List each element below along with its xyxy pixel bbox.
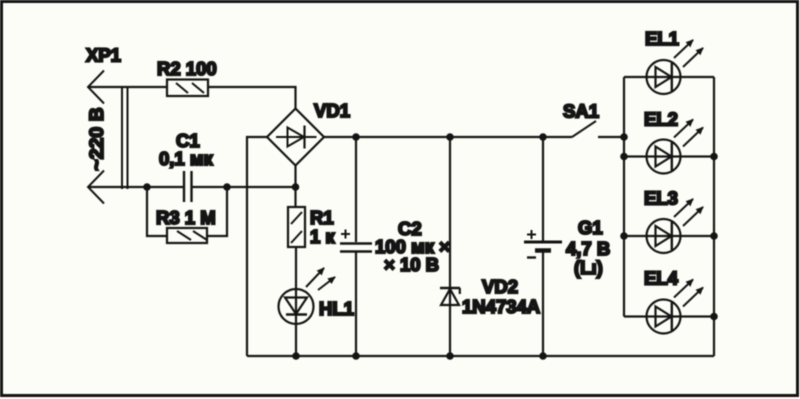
- svg-text:R1: R1: [310, 207, 334, 228]
- resistor R1: [288, 207, 305, 247]
- battery G1: [524, 230, 562, 258]
- wire bottom AC from XP1 to VD1 bottom node: [88, 186, 296, 188]
- junction node at C1 right: [223, 183, 231, 191]
- LED EL1: [624, 40, 714, 94]
- svg-text:0,1 мк: 0,1 мк: [159, 148, 214, 169]
- svg-text:EL3: EL3: [644, 188, 678, 209]
- switch SA1: [572, 121, 624, 137]
- wire LED right bus: [713, 77, 715, 356]
- connector XP1 double lines: [122, 86, 128, 189]
- junction node at C1 left: [143, 183, 151, 191]
- wire R1 to HL1 to bottom rail: [295, 247, 297, 356]
- svg-text:1 к: 1 к: [310, 226, 335, 247]
- junction node C2 top: [352, 133, 360, 141]
- svg-text:~220 В: ~220 В: [86, 107, 108, 170]
- connector XP1 pin arrows: [88, 71, 104, 204]
- svg-text:VD2: VD2: [482, 276, 518, 297]
- junction node switch to bus: [620, 133, 628, 141]
- junction node VD2 top: [446, 133, 454, 141]
- junction node G1 bottom: [539, 352, 547, 360]
- capacitor C2: [340, 230, 372, 252]
- LED EL2: [620, 120, 718, 174]
- resistor R3: [167, 228, 207, 243]
- capacitor C1: [184, 171, 192, 202]
- svg-text:VD1: VD1: [314, 100, 350, 121]
- wire VD1 left vertex to bottom rail: [247, 137, 267, 356]
- svg-text:4,7 В: 4,7 В: [566, 238, 610, 259]
- wire VD1 bottom vertex down to R1: [294, 166, 296, 208]
- svg-text:EL2: EL2: [644, 109, 678, 130]
- svg-text:SA1: SA1: [563, 101, 599, 122]
- bridge rectifier VD1: [267, 109, 324, 166]
- junction node VD1 bottom / AC line: [292, 183, 300, 191]
- junction node VD2 bottom: [446, 352, 454, 360]
- wire G1 branch: [542, 137, 544, 356]
- zener diode VD2: [440, 288, 460, 305]
- wire top AC from XP1 through R2 to VD1 top: [88, 87, 296, 109]
- junction node G1 top: [539, 133, 547, 141]
- wire C2 branch: [355, 137, 357, 356]
- svg-text:G1: G1: [578, 217, 603, 238]
- wire positive rail from VD1 right vertex to switch: [324, 136, 572, 138]
- wire loop for R3: [147, 187, 227, 236]
- svg-text:R3 1 M: R3 1 M: [156, 207, 216, 228]
- svg-text:1N4734A: 1N4734A: [462, 296, 540, 317]
- junction node HL1 bottom: [292, 352, 300, 360]
- svg-text:XP1: XP1: [86, 45, 121, 66]
- wire VD2 branch: [449, 137, 451, 356]
- svg-text:R2 100: R2 100: [157, 58, 217, 79]
- resistor R2: [167, 80, 208, 97]
- svg-text:(Lı): (Lı): [574, 257, 603, 278]
- junction node C2 bottom: [352, 352, 360, 360]
- wire bottom rail: [247, 355, 714, 357]
- svg-text:EL1: EL1: [645, 28, 679, 49]
- svg-text:EL4: EL4: [644, 268, 679, 289]
- LED EL3: [620, 199, 718, 253]
- LED HL1: [279, 268, 336, 324]
- svg-text:HL1: HL1: [319, 298, 354, 319]
- svg-text:× 10 В: × 10 В: [384, 254, 439, 275]
- wire LED left bus: [623, 77, 625, 317]
- LED EL4: [624, 280, 718, 334]
